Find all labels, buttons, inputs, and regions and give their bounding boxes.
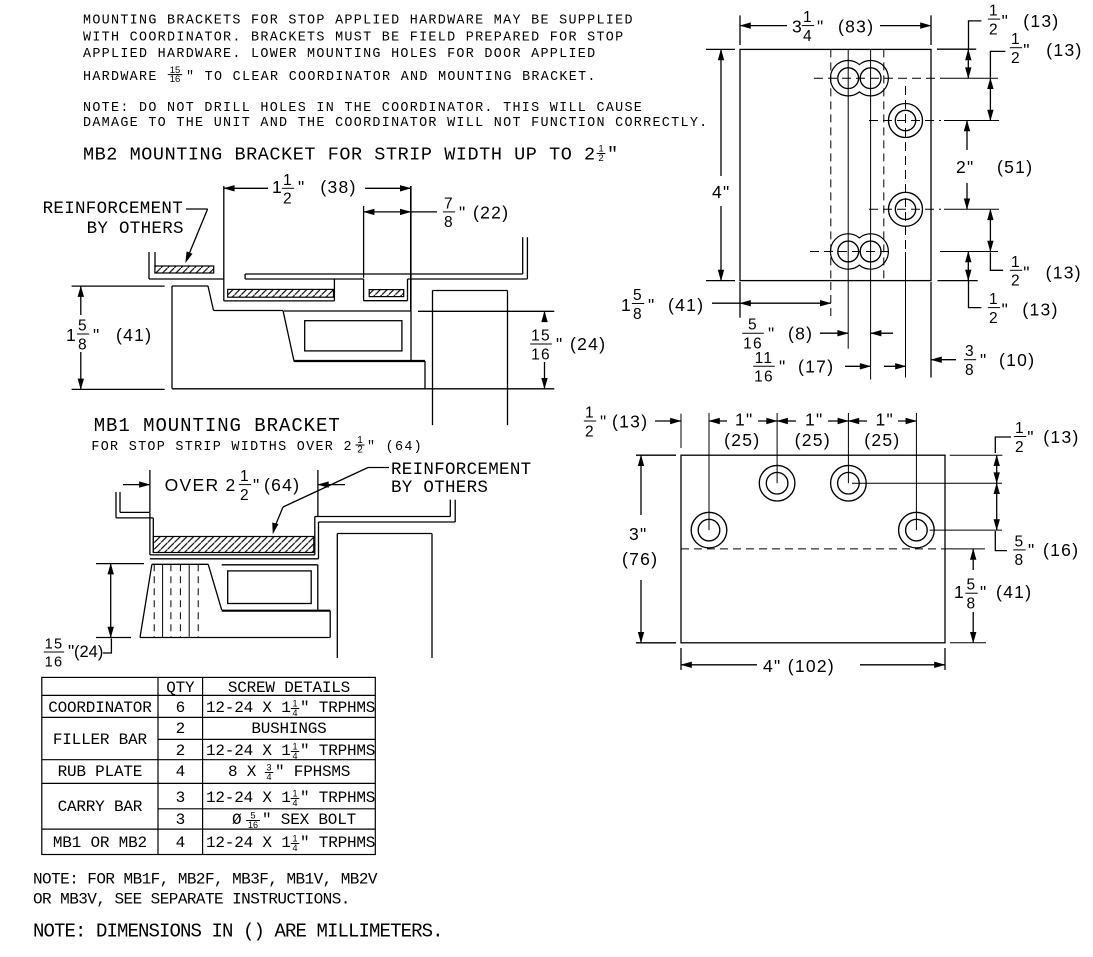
svg-text:": " <box>556 334 564 354</box>
svg-text:3: 3 <box>176 811 185 829</box>
svg-text:BY OTHERS: BY OTHERS <box>87 219 184 239</box>
svg-text:" TRPHMS: " TRPHMS <box>300 789 375 807</box>
svg-text:(13): (13) <box>1046 40 1082 60</box>
svg-text:2: 2 <box>1011 50 1021 67</box>
svg-text:2: 2 <box>598 153 603 164</box>
svg-text:(51): (51) <box>997 157 1033 177</box>
svg-text:" TRPHMS: " TRPHMS <box>300 699 375 717</box>
svg-text:APPLIED HARDWARE. LOWER MOUNTI: APPLIED HARDWARE. LOWER MOUNTING HOLES F… <box>83 47 596 62</box>
svg-text:" (64): " (64) <box>367 440 423 455</box>
svg-text:1: 1 <box>585 405 595 422</box>
svg-text:(17): (17) <box>798 357 834 377</box>
svg-text:2: 2 <box>283 191 293 208</box>
svg-text:4: 4 <box>292 708 297 718</box>
svg-text:5: 5 <box>1015 533 1025 550</box>
svg-text:WITH COORDINATOR. BRACKETS MUS: WITH COORDINATOR. BRACKETS MUST BE FIELD… <box>83 31 624 46</box>
svg-text:8: 8 <box>1015 552 1025 569</box>
svg-text:1: 1 <box>1011 254 1021 271</box>
svg-text:1": 1" <box>876 410 895 430</box>
svg-text:": " <box>298 177 306 197</box>
svg-text:(83): (83) <box>838 17 874 37</box>
svg-text:2: 2 <box>1015 439 1025 456</box>
svg-text:4: 4 <box>266 772 271 782</box>
svg-text:(13): (13) <box>1046 262 1082 282</box>
svg-text:(16): (16) <box>1043 540 1079 560</box>
svg-text:" TRPHMS: " TRPHMS <box>300 834 375 852</box>
svg-text:MB2 MOUNTING BRACKET FOR STRIP: MB2 MOUNTING BRACKET FOR STRIP WIDTH UP … <box>83 145 596 166</box>
svg-text:5: 5 <box>967 577 977 594</box>
svg-text:": " <box>607 145 619 166</box>
svg-text:8: 8 <box>965 362 975 379</box>
svg-text:1: 1 <box>240 468 250 485</box>
svg-text:8: 8 <box>444 214 454 231</box>
svg-text:2: 2 <box>176 720 185 738</box>
svg-text:1: 1 <box>954 582 965 602</box>
svg-text:FOR STOP STRIP WIDTHS OVER 2: FOR STOP STRIP WIDTHS OVER 2 <box>91 440 352 455</box>
svg-text:1: 1 <box>66 325 77 345</box>
svg-text:BUSHINGS: BUSHINGS <box>251 720 326 738</box>
svg-text:": " <box>1002 11 1010 31</box>
svg-text:4": 4" <box>712 182 731 202</box>
svg-text:": " <box>1023 262 1031 282</box>
svg-text:1: 1 <box>989 291 999 308</box>
svg-text:(41): (41) <box>996 582 1032 602</box>
svg-text:3: 3 <box>965 343 975 360</box>
svg-text:16: 16 <box>45 655 64 671</box>
svg-text:": " <box>459 203 467 223</box>
svg-text:5: 5 <box>633 287 643 304</box>
svg-text:15: 15 <box>531 328 551 345</box>
svg-text:REINFORCEMENT: REINFORCEMENT <box>391 460 531 480</box>
svg-text:RUB PLATE: RUB PLATE <box>58 763 143 781</box>
svg-text:": " <box>980 350 988 370</box>
svg-text:" FPHSMS: " FPHSMS <box>275 763 350 781</box>
svg-text:(64): (64) <box>264 475 300 495</box>
svg-text:BY OTHERS: BY OTHERS <box>391 478 488 498</box>
svg-text:2: 2 <box>989 21 999 38</box>
svg-text:Ø: Ø <box>232 811 242 829</box>
svg-text:(41): (41) <box>668 295 704 315</box>
svg-text:1": 1" <box>735 410 754 430</box>
svg-text:8: 8 <box>967 596 977 613</box>
svg-text:1: 1 <box>803 9 813 26</box>
svg-text:3: 3 <box>792 17 803 37</box>
svg-text:1: 1 <box>272 177 283 197</box>
svg-text:(10): (10) <box>999 350 1035 370</box>
svg-text:1: 1 <box>989 3 999 20</box>
svg-text:" SEX BOLT: " SEX BOLT <box>262 811 356 829</box>
svg-text:MB1 MOUNTING BRACKET: MB1 MOUNTING BRACKET <box>94 415 341 437</box>
svg-text:4: 4 <box>292 843 297 853</box>
svg-text:(13): (13) <box>1023 11 1059 31</box>
svg-text:2: 2 <box>1011 273 1021 290</box>
svg-text:3": 3" <box>629 524 648 544</box>
svg-text:12-24 X 1: 12-24 X 1 <box>206 834 291 852</box>
svg-text:": " <box>817 17 825 37</box>
svg-text:(24): (24) <box>74 643 103 661</box>
svg-text:(13): (13) <box>1022 300 1058 320</box>
svg-text:12-24 X 1: 12-24 X 1 <box>206 699 291 717</box>
svg-text:3: 3 <box>176 789 185 807</box>
svg-text:(41): (41) <box>116 325 152 345</box>
svg-text:4: 4 <box>292 798 297 808</box>
svg-text:7: 7 <box>444 195 454 212</box>
svg-text:DAMAGE TO THE UNIT AND THE COO: DAMAGE TO THE UNIT AND THE COORDINATOR W… <box>83 116 709 131</box>
svg-text:": " <box>768 324 776 344</box>
svg-text:": " <box>980 582 988 602</box>
svg-text:SCREW DETAILS: SCREW DETAILS <box>228 679 350 697</box>
svg-text:MOUNTING BRACKETS FOR STOP APP: MOUNTING BRACKETS FOR STOP APPLIED HARDW… <box>83 14 634 29</box>
svg-text:(13): (13) <box>612 412 648 432</box>
svg-text:OVER 2: OVER 2 <box>165 475 237 495</box>
svg-text:2: 2 <box>585 423 595 440</box>
svg-text:": " <box>93 325 101 345</box>
svg-text:REINFORCEMENT: REINFORCEMENT <box>43 199 183 219</box>
svg-text:1: 1 <box>1015 420 1025 437</box>
svg-text:1: 1 <box>283 172 293 189</box>
svg-text:12-24 X 1: 12-24 X 1 <box>206 742 291 760</box>
svg-text:8: 8 <box>633 306 643 323</box>
svg-text:NOTE: DO NOT DRILL HOLES IN TH: NOTE: DO NOT DRILL HOLES IN THE COORDINA… <box>83 101 643 116</box>
svg-text:16: 16 <box>531 346 551 363</box>
svg-text:(25): (25) <box>795 430 831 450</box>
svg-text:(38): (38) <box>320 177 356 197</box>
svg-text:": " <box>253 475 261 495</box>
svg-text:FILLER BAR: FILLER BAR <box>53 731 148 749</box>
svg-text:" TRPHMS: " TRPHMS <box>300 742 375 760</box>
svg-text:1: 1 <box>621 295 632 315</box>
svg-text:4: 4 <box>176 834 185 852</box>
svg-text:HARDWARE: HARDWARE <box>83 70 158 85</box>
svg-text:MB1 OR MB2: MB1 OR MB2 <box>53 834 147 852</box>
svg-text:1": 1" <box>805 410 824 430</box>
svg-text:(22): (22) <box>473 203 509 223</box>
svg-text:2: 2 <box>240 487 250 504</box>
svg-text:8: 8 <box>78 336 88 353</box>
svg-text:NOTE: FOR MB1F, MB2F, MB3F, MB: NOTE: FOR MB1F, MB2F, MB3F, MB1V, MB2V <box>33 871 378 889</box>
svg-text:": " <box>1027 427 1035 447</box>
svg-text:4: 4 <box>292 751 297 761</box>
svg-text:CARRY BAR: CARRY BAR <box>58 798 143 816</box>
svg-text:OR MB3V, SEE SEPARATE INSTRUCT: OR MB3V, SEE SEPARATE INSTRUCTIONS. <box>33 891 350 909</box>
svg-text:5: 5 <box>78 318 88 335</box>
svg-text:": " <box>1023 40 1031 60</box>
svg-text:(25): (25) <box>864 430 900 450</box>
svg-text:NOTE: DIMENSIONS IN () ARE MIL: NOTE: DIMENSIONS IN () ARE MILLIMETERS. <box>33 921 443 943</box>
svg-text:8 X: 8 X <box>228 763 257 781</box>
svg-text:(13): (13) <box>1043 427 1079 447</box>
svg-text:" TO CLEAR COORDINATOR AND MOU: " TO CLEAR COORDINATOR AND MOUNTING BRAC… <box>186 70 597 85</box>
svg-text:2: 2 <box>989 310 999 327</box>
svg-text:(24): (24) <box>570 334 606 354</box>
svg-text:": " <box>1002 300 1010 320</box>
svg-text:15: 15 <box>45 637 64 653</box>
svg-text:11: 11 <box>755 350 774 367</box>
svg-text:12-24 X 1: 12-24 X 1 <box>206 789 291 807</box>
svg-text:4: 4 <box>176 763 185 781</box>
svg-text:": " <box>648 295 656 315</box>
svg-text:2: 2 <box>176 742 185 760</box>
svg-text:(25): (25) <box>724 430 760 450</box>
svg-text:QTY: QTY <box>166 679 195 697</box>
svg-text:4" (102): 4" (102) <box>763 656 835 676</box>
svg-text:(76): (76) <box>622 549 658 569</box>
svg-text:2: 2 <box>357 445 363 456</box>
svg-text:": " <box>779 357 787 377</box>
svg-text:COORDINATOR: COORDINATOR <box>48 699 152 717</box>
svg-text:(8): (8) <box>788 324 813 344</box>
svg-text:16: 16 <box>170 74 181 85</box>
svg-text:4: 4 <box>803 28 813 45</box>
svg-text:16: 16 <box>754 369 774 386</box>
svg-text:16: 16 <box>248 820 258 830</box>
svg-text:": " <box>600 412 608 432</box>
svg-text:5: 5 <box>748 317 758 334</box>
svg-text:": " <box>1028 540 1036 560</box>
svg-text:6: 6 <box>176 699 185 717</box>
svg-text:1: 1 <box>1011 31 1021 48</box>
svg-text:2": 2" <box>956 157 975 177</box>
